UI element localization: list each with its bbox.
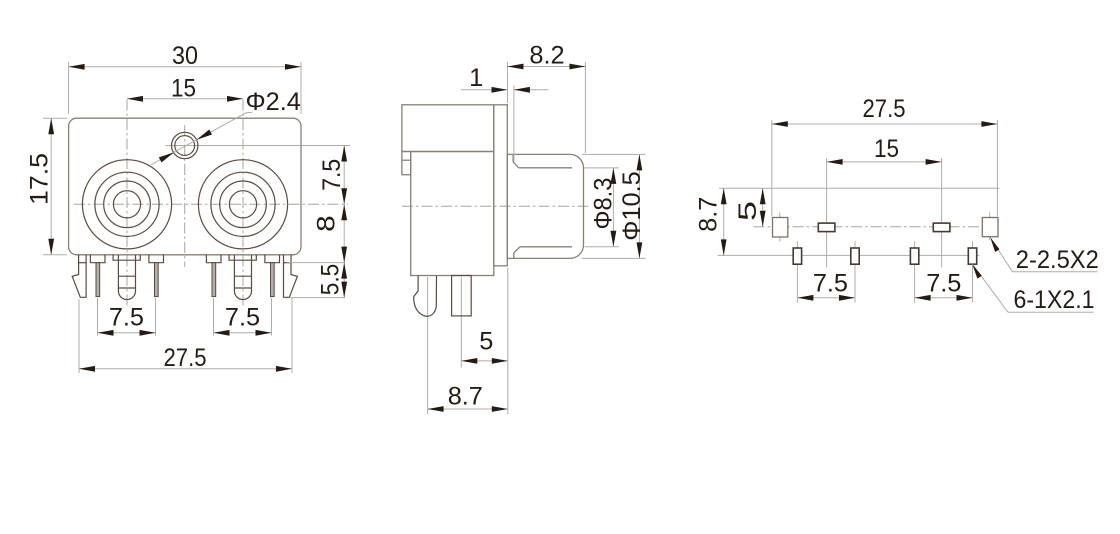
svg-text:1: 1 bbox=[469, 64, 483, 92]
layout view: row1 slot pad right 1x2.1 bbox=[933, 223, 950, 232]
layout view: row1 pad centerline left (15 extension) bbox=[826, 158, 828, 268]
svg-text:27.5: 27.5 bbox=[164, 344, 207, 372]
layout view: centerline through mounting holes bbox=[754, 226, 1001, 228]
front view: left RCA jack circle ring 4 bbox=[113, 191, 140, 218]
layout view: row2 pad 1 centerline bbox=[796, 241, 798, 302]
front view: left RCA jack circle ring 1 bbox=[82, 160, 171, 249]
svg-text:5: 5 bbox=[734, 201, 762, 221]
svg-text:8: 8 bbox=[312, 215, 340, 232]
callout leader 6-1X2.1 solder pads bbox=[972, 264, 1094, 314]
front view: left group pin 1 stub bbox=[90, 255, 105, 263]
side view: RCA barrel outline bbox=[507, 154, 583, 258]
callout leader 2-2.5X2 mounting holes bbox=[990, 238, 1099, 275]
layout view: right mounting hole 2.5x2 bbox=[982, 218, 998, 237]
layout view: row2 slot pad 4 bbox=[968, 248, 976, 264]
front view: centerline vertical small hole bbox=[184, 125, 186, 267]
side view: barrel front chamfer bottom bbox=[514, 247, 520, 259]
dimension 8.7 layout left bbox=[695, 188, 727, 255]
svg-text:15: 15 bbox=[171, 75, 196, 103]
front view: left snap-in bracket leg bbox=[72, 255, 86, 297]
svg-text:7.5: 7.5 bbox=[318, 159, 346, 191]
front view: centerline horizontal through RCA jack centers bbox=[74, 203, 348, 205]
svg-text:5.5: 5.5 bbox=[316, 264, 344, 296]
front view: right group pin 1 stub bbox=[206, 255, 221, 263]
dimension 7.5 bottom right bbox=[214, 298, 272, 336]
side view: center pin side profile bbox=[452, 276, 472, 316]
dimension 15 layout bbox=[827, 135, 942, 165]
front view: right RCA jack circle ring 2 bbox=[211, 172, 275, 236]
svg-text:7.5: 7.5 bbox=[225, 304, 260, 332]
front view: left group pin 2 thin lead bbox=[155, 263, 159, 297]
front view: left RCA jack circle ring 2 bbox=[95, 172, 159, 236]
front view: right group pin 1 thin lead bbox=[212, 263, 216, 297]
dimension 17.5 left bbox=[26, 118, 68, 255]
side view: left small tab bbox=[402, 152, 411, 175]
layout view: top reference line bbox=[719, 187, 999, 189]
front view: small mounting hole outer circle bbox=[172, 132, 198, 158]
dimension 30 top bbox=[69, 42, 301, 114]
svg-text:7.5: 7.5 bbox=[813, 270, 848, 298]
layout view: row2 slot pad 3 bbox=[910, 248, 918, 264]
dimension phi 10.5 bbox=[582, 154, 646, 258]
svg-text:Φ2.4: Φ2.4 bbox=[246, 88, 301, 116]
svg-text:8.7: 8.7 bbox=[448, 383, 483, 411]
dimension phi 2.4 callout leader bbox=[151, 88, 301, 165]
front view: right RCA jack circle ring 4 bbox=[229, 191, 256, 218]
front view: left group pin 1 thin lead bbox=[96, 263, 100, 297]
dimension 27.5 bottom bbox=[79, 298, 292, 373]
front view: right snap-in bracket leg bbox=[284, 255, 298, 297]
front view: left center pin body bbox=[118, 255, 135, 300]
front view: left group pin 2 stub bbox=[149, 255, 164, 263]
dimension 5 layout left bbox=[734, 188, 766, 227]
layout view: row2 slot pad 2 bbox=[851, 248, 859, 264]
side view: centerline horizontal bbox=[402, 205, 589, 207]
dimension 7.5 bottom left bbox=[98, 298, 156, 336]
dimension 15 top bbox=[127, 75, 243, 103]
front view: right RCA jack circle ring 3 bbox=[220, 181, 267, 228]
svg-text:7.5: 7.5 bbox=[926, 270, 961, 298]
layout view: row1 pad centerline right (15 extension) bbox=[941, 158, 943, 268]
svg-text:8.7: 8.7 bbox=[695, 197, 723, 232]
front view: right group pin 2 stub bbox=[265, 255, 280, 263]
svg-text:Φ10.5: Φ10.5 bbox=[618, 171, 646, 240]
front view: centerline vertical left jack bbox=[126, 100, 128, 307]
dimension 5 bottom bbox=[461, 268, 508, 414]
side view: extension line through jack pin center bbox=[427, 277, 429, 414]
layout view: row2 pad 4 centerline bbox=[972, 241, 974, 302]
dimension 8.7 bottom bbox=[428, 383, 508, 412]
front view: small mounting hole inner circle bbox=[175, 136, 195, 156]
front view: right group pin 2 thin lead bbox=[271, 263, 275, 297]
dimension 1 flange thickness bbox=[461, 64, 549, 162]
side view: extension line through center pin bbox=[460, 277, 462, 368]
front view: left RCA jack circle ring 3 bbox=[104, 181, 151, 228]
layout view: left mounting hole centerline tick bbox=[779, 212, 781, 241]
svg-text:27.5: 27.5 bbox=[863, 95, 906, 123]
svg-text:8.2: 8.2 bbox=[529, 42, 564, 70]
svg-text:17.5: 17.5 bbox=[26, 153, 54, 205]
front view: right RCA jack circle ring 1 bbox=[198, 160, 287, 249]
dimension phi 8.3 bbox=[585, 168, 620, 247]
side view: snap-in bracket leg (J hook) bbox=[414, 276, 437, 317]
layout view: left mounting hole 2.5x2 bbox=[773, 218, 788, 238]
layout view: row2 pad 2 centerline bbox=[854, 241, 856, 302]
front view: centerline vertical right jack bbox=[242, 100, 244, 307]
svg-text:5: 5 bbox=[479, 328, 493, 356]
front view: right center pin body bbox=[234, 255, 251, 300]
dimension 7.5 layout left bbox=[797, 270, 855, 301]
dimension 7.5 layout right bbox=[915, 270, 973, 301]
side view: barrel inner bore bottom line bbox=[520, 246, 572, 248]
layout view: row2 slot pad 1 bbox=[793, 248, 801, 264]
layout view: row2 pad 3 centerline bbox=[914, 241, 916, 302]
svg-text:Φ8.3: Φ8.3 bbox=[589, 178, 617, 230]
svg-text:15: 15 bbox=[874, 135, 899, 163]
side view: upper block outline bbox=[402, 105, 494, 152]
dimension 8.2 top bbox=[508, 42, 586, 154]
side view: barrel inner bore top line bbox=[519, 167, 572, 169]
svg-text:2-2.5X2: 2-2.5X2 bbox=[1016, 246, 1099, 274]
front view: body outline bbox=[69, 118, 301, 255]
dimension 27.5 layout bbox=[772, 95, 998, 217]
side view: main body outline bbox=[411, 152, 494, 276]
layout view: row1 slot pad left 1x2.1 bbox=[818, 223, 835, 232]
dimension chain right: 7.5 / 8 / 5.5 bbox=[287, 146, 347, 298]
side view: barrel front chamfer top bbox=[513, 154, 519, 167]
layout view: lower reference line bbox=[718, 254, 980, 256]
front view: left center pin shoulders bbox=[113, 255, 140, 260]
front view: centerline horizontal small hole bbox=[166, 145, 351, 147]
layout view: right mounting hole centerline tick bbox=[989, 212, 991, 240]
svg-text:30: 30 bbox=[172, 42, 198, 70]
svg-text:7.5: 7.5 bbox=[109, 304, 144, 332]
front view: right center pin shoulders bbox=[229, 255, 256, 260]
svg-text:6-1X2.1: 6-1X2.1 bbox=[1014, 286, 1095, 314]
side view: front flange bbox=[494, 105, 508, 266]
